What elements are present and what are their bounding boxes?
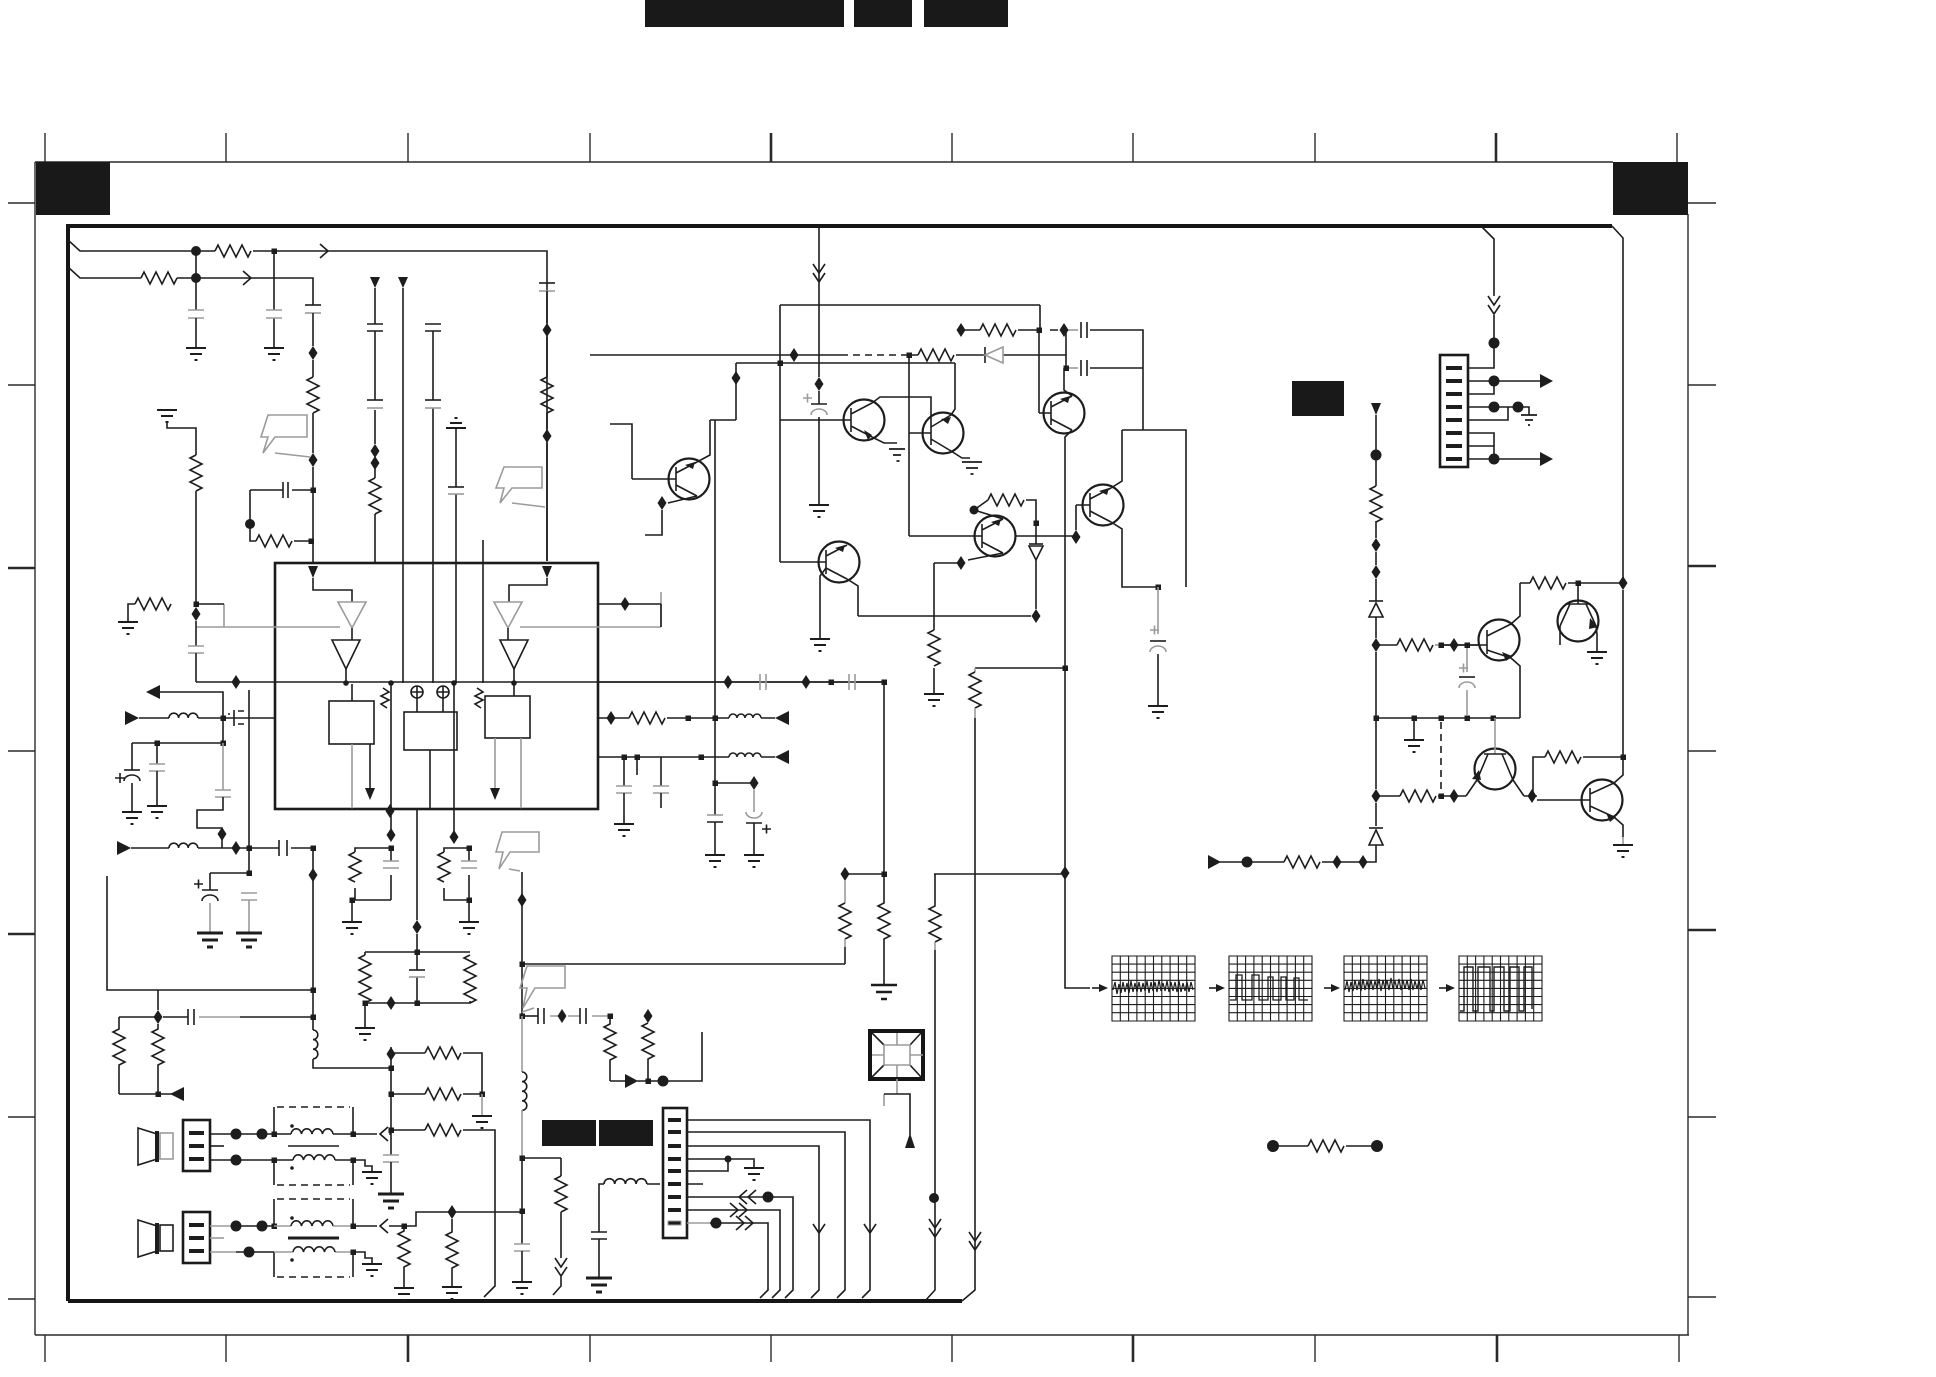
connector CN3 — [663, 1108, 687, 1238]
wire chevron x819 — [813, 1224, 825, 1233]
capacitor C14 — [197, 743, 231, 848]
junction sq 1065-668 — [1063, 666, 1069, 672]
wire x433 — [432, 331, 434, 683]
chevrons pin7 — [739, 1190, 756, 1204]
capacitor C1 — [188, 310, 204, 348]
node x1376 — [1371, 450, 1382, 461]
junction sq 313-1017 — [311, 1015, 317, 1021]
resistor R35 — [1530, 577, 1566, 589]
junction sq D2 — [1034, 521, 1040, 527]
wire cn4 pin5 — [1468, 407, 1508, 420]
inductor L2 — [169, 843, 198, 848]
junction sq 522-1211 — [520, 1209, 526, 1215]
IC phase circle 1 — [411, 686, 423, 698]
capacitor C32 — [849, 674, 855, 690]
junction sq 157-743 — [155, 741, 161, 747]
wire cn3 pin3 — [687, 1146, 819, 1298]
ecap C37 — [1459, 648, 1475, 715]
supply arrow V1 — [370, 277, 380, 288]
capacitor C33 — [616, 757, 632, 824]
wire y645 row — [1376, 644, 1479, 646]
wire R25 to diode — [1026, 500, 1036, 523]
wire t2 sec gnd — [353, 1252, 372, 1264]
wire IC internal bus — [196, 681, 884, 683]
wire Q6 base — [909, 535, 961, 537]
transformer T2 — [274, 1199, 353, 1277]
diamond y645 — [1450, 638, 1459, 652]
wire y368 row — [1066, 367, 1143, 369]
capacitor C34 — [653, 757, 669, 808]
junction sq y330 — [1037, 328, 1043, 334]
callout flag 2 — [496, 467, 545, 507]
diamond x547 — [543, 323, 552, 337]
transistor Q11 — [1537, 780, 1623, 823]
wire Q4 emitter drop — [645, 510, 662, 535]
resistor R20 — [359, 955, 371, 1003]
diamond bus-left — [232, 675, 241, 689]
ground — [705, 855, 725, 867]
resistor R19 — [438, 852, 450, 882]
junction sq t2 right — [351, 1224, 357, 1230]
wire cn3 pin7 — [687, 1197, 793, 1298]
arrow in IC right — [490, 788, 500, 800]
junction sq x391 a — [389, 1066, 395, 1072]
junction sq 610-1016 — [608, 1014, 614, 1020]
wire chevrons x561 — [553, 1258, 567, 1295]
node on riser x935 — [929, 1193, 939, 1203]
resistor R16 — [604, 1016, 616, 1081]
resistor R18 — [349, 852, 361, 882]
wire Q7 collector — [1111, 430, 1186, 587]
junction sq t2 — [272, 1224, 278, 1230]
resistor R22 — [555, 1176, 567, 1212]
wire R trio row3 — [391, 1130, 495, 1297]
diamond Q7 base — [1072, 530, 1081, 544]
resistor R9 — [113, 1017, 125, 1094]
wire y963 — [522, 963, 845, 965]
transistor Q2 — [909, 413, 964, 454]
arrow chevron row2 — [243, 271, 251, 285]
ground — [355, 1028, 375, 1040]
node sp2 c — [244, 1247, 255, 1258]
wire y330 row — [965, 330, 1143, 430]
wire cap row y1016 — [522, 1015, 610, 1017]
wire Q4 emitter — [668, 496, 697, 503]
supply arrow V2 — [398, 277, 408, 288]
capacitor C21 — [461, 861, 477, 868]
ground x456 top — [446, 418, 466, 428]
node pin9 — [711, 1218, 722, 1229]
junction sq r12 — [480, 1092, 486, 1098]
transistor Q6 — [961, 516, 1016, 557]
wire block3 outputs — [495, 738, 521, 809]
ground — [118, 622, 138, 634]
diamond loop bottom — [387, 996, 396, 1010]
node CN4 top — [1489, 338, 1500, 349]
ground — [342, 922, 362, 934]
wire bus to CN4 — [1468, 226, 1494, 368]
transistor Q1 — [780, 400, 885, 441]
junction sq 648-1081 — [646, 1079, 652, 1085]
wire IC right y604 — [598, 604, 661, 627]
resistor R5 — [369, 478, 381, 514]
capacitor C20 — [383, 861, 399, 868]
wire Q2 emitter — [951, 451, 970, 458]
wire 196-604 to 224 — [196, 603, 224, 605]
capacitor C11 — [188, 621, 204, 682]
junction sq y718 b — [713, 716, 719, 722]
junction sq t2 sec — [351, 1250, 357, 1256]
node test b — [1371, 1140, 1383, 1152]
junction sq y757 c — [699, 755, 705, 761]
node pin4 — [1489, 402, 1500, 413]
wire Q1 emitter gnd — [872, 437, 897, 443]
wire cn4 pin8 arrow — [1468, 458, 1540, 460]
wire input row y862 — [1220, 861, 1369, 863]
wire Q6 emitter — [968, 553, 1003, 560]
junction sq rc1 bot — [350, 898, 356, 904]
junction sq x1623-757 — [1621, 755, 1627, 761]
wire IC gray feed right — [520, 592, 661, 627]
ground — [924, 694, 944, 706]
wire x547 low — [546, 443, 548, 561]
junction sq x391 c — [389, 1128, 395, 1134]
ground — [147, 806, 167, 818]
diamond x1065 — [1061, 866, 1070, 880]
black bar left — [542, 1120, 596, 1146]
transistor Q5 — [780, 542, 860, 583]
scope grid 3 — [1344, 956, 1427, 1021]
resistor R14 — [398, 1226, 410, 1288]
op-amp IC U1 — [275, 563, 598, 809]
resistor R36 — [1400, 790, 1436, 802]
wire block1 outputs — [351, 744, 353, 809]
arrow chevron t1 — [380, 1127, 388, 1141]
diamond Q4 emitter — [658, 496, 667, 510]
wire x522 low — [522, 1110, 561, 1244]
junction sq row1 — [272, 249, 278, 255]
resistor R31 — [929, 874, 941, 950]
node bus left triangle — [343, 680, 349, 686]
diamond n2 — [309, 453, 318, 467]
node sp2 a — [231, 1221, 242, 1232]
wire block stems — [352, 684, 514, 712]
junction sq R4 — [309, 539, 315, 545]
resistor R37 — [1545, 751, 1581, 763]
diode D2 — [1029, 523, 1043, 609]
capacitor C24 — [580, 1008, 586, 1024]
ground left col — [157, 410, 177, 422]
junction sq 522-1158 — [520, 1156, 526, 1162]
wire sp1 pin2 stub — [210, 1145, 224, 1147]
diamond x648 — [644, 1009, 653, 1023]
wire y718 right row — [1376, 717, 1520, 719]
node row2 — [191, 273, 201, 283]
wire Q7 base link — [1016, 536, 1076, 537]
chevrons CN4 — [1488, 296, 1500, 314]
wire sp1 pin3 — [210, 1159, 274, 1161]
wire sp1 pin1 — [210, 1133, 274, 1135]
resistor R13 — [425, 1124, 461, 1136]
ground — [889, 449, 905, 461]
ground — [472, 1116, 492, 1128]
resistor R32 — [1370, 486, 1382, 522]
arrow chevron row1 — [320, 244, 328, 258]
speaker SP1 — [138, 1128, 173, 1165]
node sp2 b — [257, 1221, 268, 1232]
wire to R4 — [249, 490, 251, 524]
wire IC right input — [509, 578, 547, 602]
IC trimmer zigzag left — [381, 688, 389, 708]
resistor R6 — [541, 337, 553, 429]
capacitor C23 — [538, 1008, 544, 1024]
wire y355 row — [590, 355, 1066, 368]
ground bus border — [68, 226, 1623, 1301]
output arrow left 3 — [170, 1087, 184, 1101]
ground — [1148, 706, 1168, 718]
scope arrow 4 — [1439, 984, 1455, 992]
node sp1 b — [257, 1129, 268, 1140]
wire Q2 base riser — [908, 355, 910, 536]
diamond rail a — [386, 804, 395, 818]
diamond y1016 — [558, 1009, 567, 1023]
resistor R25 — [988, 494, 1024, 506]
resistor R24 — [980, 324, 1016, 336]
output arrow right 1 — [625, 1074, 638, 1088]
junction sq y682 — [829, 680, 835, 686]
wire below-IC rail — [275, 808, 598, 810]
node 663-1081 — [658, 1076, 669, 1087]
junction sq y645 — [1439, 643, 1445, 649]
diamond y616 — [1032, 609, 1041, 623]
transistor Q9 — [1558, 583, 1599, 642]
wire y757 output row — [598, 756, 775, 758]
ground — [1613, 845, 1633, 857]
wire t1 sec gnd — [353, 1160, 372, 1172]
ground — [1587, 652, 1607, 664]
wire IC left input — [313, 578, 352, 602]
wire y990 to dia — [157, 990, 159, 1010]
output arrow left 1 — [146, 685, 223, 717]
inductor L3 vertical — [313, 1030, 391, 1068]
scope arrow 2 — [1209, 984, 1225, 992]
ground — [186, 348, 206, 360]
diamond 196 — [192, 607, 201, 621]
wire Q6 collector net — [974, 510, 1003, 519]
wire Q11 emitter gnd — [1614, 817, 1623, 845]
junction sq 313-848 — [311, 846, 317, 852]
chevrons pin9 — [736, 1216, 753, 1230]
resistor R1 — [215, 245, 251, 257]
wire R trio row1 — [391, 1053, 482, 1094]
capacitor C5 — [367, 324, 383, 331]
diamond n1 — [309, 346, 318, 360]
wire Q10 collector — [1513, 780, 1524, 796]
wire x417 — [416, 809, 418, 952]
resistor R38 — [1308, 1140, 1344, 1152]
wire Q7 base drop — [1075, 505, 1077, 530]
wire x313 lower — [312, 467, 314, 563]
wire x375 — [374, 288, 376, 563]
resistor R2 — [141, 272, 177, 284]
node pin4 — [725, 1156, 732, 1163]
junction sq x1376 — [1374, 716, 1380, 722]
node row1 — [191, 246, 201, 256]
transformer T1 — [274, 1107, 353, 1185]
diamond below IC v1 — [387, 828, 396, 842]
wire row848 — [131, 847, 313, 849]
IC block3 — [485, 696, 530, 738]
wire y1081 out — [610, 1032, 702, 1081]
wire x1376 chain — [1369, 415, 1376, 862]
junction sq row848 — [247, 846, 253, 852]
wire triangle links — [346, 628, 514, 684]
wire IC gray feed left — [196, 604, 340, 627]
diamond x736 — [732, 371, 741, 385]
resistor R29 — [839, 881, 851, 964]
dashed segment y355 — [841, 354, 907, 356]
capacitor C22 — [409, 970, 425, 977]
node pin7 — [763, 1192, 774, 1203]
diamond 158-1016 — [154, 1010, 163, 1024]
wire cn4 pin6 — [1468, 433, 1494, 446]
wire Q8 emitter — [1511, 658, 1520, 718]
diamond x1623 — [1619, 576, 1628, 590]
junction sq rpair — [156, 1092, 162, 1098]
black bar right — [599, 1120, 653, 1146]
diamond y718 — [607, 711, 616, 725]
node pin8 — [1489, 454, 1500, 465]
resistor R8 — [135, 598, 171, 610]
ground — [744, 855, 764, 867]
big ground — [586, 1278, 612, 1292]
buffer triangle right B — [500, 640, 528, 669]
wire t1 out — [353, 1133, 391, 1135]
IC phase circle 2 — [437, 686, 449, 698]
wire supply row 2 — [68, 267, 313, 305]
capacitor C26 — [591, 1232, 607, 1278]
buffer triangle right A — [494, 602, 522, 628]
wire Q10 emitter — [1466, 780, 1477, 796]
wire gnd-R7 — [167, 422, 196, 455]
arrow head pin2 — [1540, 374, 1553, 388]
input arrow left 1 — [125, 711, 139, 725]
connector CN2 — [183, 1212, 210, 1263]
wire Q3 collector — [1064, 368, 1072, 396]
wire cn4 pin4 — [1468, 407, 1529, 415]
arrow head pin8 — [1540, 452, 1553, 466]
transistor Q10 — [1472, 718, 1516, 790]
node Q6 collector — [970, 506, 979, 515]
scope arrow 3 — [1324, 984, 1340, 992]
wire R37 link — [1533, 757, 1623, 796]
diode D3 — [1369, 601, 1383, 617]
wire x249 — [248, 690, 250, 873]
resistor R7 — [190, 455, 202, 604]
capacitor C8 — [425, 400, 441, 408]
wire cn4 pin3 — [1468, 381, 1494, 394]
wire RCR loop — [365, 952, 470, 1028]
resistor R23 — [918, 349, 954, 361]
wire y583 — [1520, 582, 1623, 584]
wire cn4 pin2 arrow — [1468, 380, 1540, 382]
node bus mid2 — [451, 680, 457, 686]
ground — [744, 1168, 764, 1180]
ground — [264, 348, 284, 360]
wire Q3 base riser — [1038, 330, 1040, 413]
diamond x1376 b — [1372, 565, 1381, 579]
diamond y862 a — [1333, 855, 1342, 869]
resistor R28x — [629, 712, 665, 724]
capacitor C13 — [149, 743, 165, 806]
diamond y330 right — [1060, 323, 1069, 337]
junction sq t1 — [272, 1132, 278, 1138]
wire R pair bottom — [119, 1093, 172, 1095]
scope grid 2 — [1229, 956, 1312, 1021]
junction sq y718 r1 — [1412, 716, 1418, 722]
junction sq loop bm — [415, 1001, 421, 1007]
diamond x1376 d — [1372, 789, 1381, 803]
transistor Q8 — [1441, 620, 1520, 662]
IC block1 — [329, 701, 374, 744]
ground — [442, 1287, 462, 1299]
junction sq t1 right — [351, 1132, 357, 1138]
junction sq loop top — [415, 950, 421, 956]
wire x391 column — [390, 1047, 392, 1155]
wire row743 — [132, 717, 223, 743]
wire Q4 collector — [697, 420, 710, 462]
transistor Q7 — [1076, 485, 1124, 526]
wire y1017 — [119, 1016, 313, 1018]
wire x934 upper seg — [933, 563, 935, 694]
wire IC verticals from bus down — [391, 683, 454, 837]
wire x313 mid — [312, 848, 314, 1030]
junction sq t2 out — [402, 1224, 408, 1230]
resistor R33 — [1284, 856, 1320, 868]
junction sq rc2 top — [467, 846, 473, 852]
ground — [809, 505, 829, 517]
diamond y862 b — [1359, 855, 1368, 869]
wire test link — [1273, 1145, 1377, 1147]
capacitor C15 — [279, 840, 287, 856]
junction sq rc2 bot — [467, 898, 473, 904]
junction sq y718 a — [686, 716, 692, 722]
black label bar — [1292, 381, 1344, 416]
node sp1 a — [231, 1129, 242, 1140]
wire Q5 collector — [847, 579, 858, 616]
wire R8 left gnd — [128, 604, 135, 622]
inductor L6 — [729, 753, 761, 757]
node pin4b — [1513, 402, 1524, 413]
wire Q6 emitter to x934 — [934, 562, 957, 564]
arrow up symbol — [905, 1133, 915, 1148]
wire Q9 emitter gnd — [1596, 626, 1597, 652]
capacitor C4 link — [250, 482, 313, 498]
capacitor C18 — [188, 1009, 194, 1025]
chevrons pin8 — [730, 1203, 747, 1217]
resistor R15 — [446, 1219, 458, 1287]
ground — [122, 812, 142, 824]
diamond x375 a — [371, 444, 380, 458]
junction sq y757 a — [622, 755, 628, 761]
IC input arrow left — [308, 566, 318, 578]
wire x736 — [710, 363, 736, 420]
wire Q2 collector — [951, 363, 955, 415]
junction sq x715 — [713, 781, 719, 787]
capacitor C3 — [305, 305, 321, 346]
node R4 — [245, 519, 255, 529]
junction sq 249-873 — [247, 871, 253, 877]
